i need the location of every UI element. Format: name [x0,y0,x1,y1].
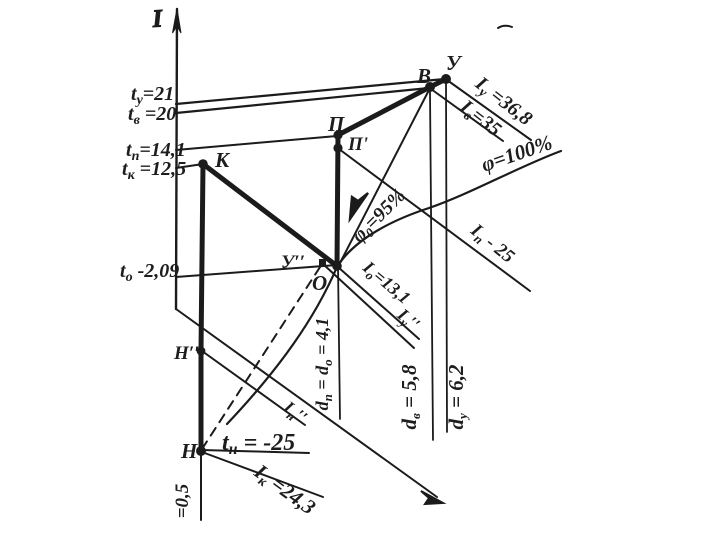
isenthalp I_n'' through N'' [202,351,305,425]
oblique axis line from axis elbow with arrow [176,309,437,497]
oblique axis arrowhead [421,491,443,504]
d line below U vertical thin [446,82,447,432]
svg-text:=0,5: =0,5 [172,483,193,518]
arrow on V-O line [350,193,368,219]
svg-text:Н′′: Н′′ [173,343,199,364]
saturation curve phi [227,151,561,424]
line V-O thin with direction arrow [340,88,430,263]
isotherm t_n=-25 [202,450,309,453]
svg-text:У′′: У′′ [281,252,305,273]
isenthalp I_o through O [338,267,419,339]
isenthalp I_p through P' [339,149,530,291]
process line O-P'-P bold vertical [337,135,338,266]
point N [196,446,206,456]
isenthalp I_k through N [202,452,323,497]
svg-text:К: К [214,148,231,172]
svg-text:П: П [327,112,345,136]
point K [198,159,208,169]
small tick top right [498,26,512,28]
svg-text:dу = 6,2: dу = 6,2 [444,364,470,429]
svg-text:У: У [446,51,463,75]
svg-text:П': П' [347,134,368,155]
process line N-N''-K bold vertical [201,164,203,451]
isotherm t_y=21 [176,79,445,104]
line below N thin [200,451,202,520]
dashed mixing line N-U'' [202,264,322,449]
isenthalp I_y through U [447,80,531,140]
isotherm t_v=20 [176,88,429,113]
point N'' [197,347,206,356]
d line below O vertical thin [338,266,340,419]
isotherm t_o=2.09 [176,265,337,277]
process line P-V bold [338,87,430,135]
d line below V vertical thin [430,92,433,440]
I axis vertical line [176,9,177,309]
point P [333,130,342,139]
svg-text:О: О [312,271,327,295]
I axis arrowhead [173,9,182,33]
svg-text:Н: Н [180,439,198,463]
svg-text:В: В [416,64,431,88]
process line V-U bold [430,79,446,87]
isotherm t_k=12.5 [176,164,203,168]
point V [425,82,435,92]
isenthalp I_y'' through U'' [323,264,414,348]
isotherm t_p=14.1 [176,136,337,150]
process line K-O bold [203,164,337,266]
point P' [333,143,342,152]
isenthalp I_v through V [431,89,503,141]
point U'' [319,259,326,266]
svg-text:dв = 5,8: dв = 5,8 [397,364,423,430]
point U [441,74,451,84]
point O [332,261,342,271]
